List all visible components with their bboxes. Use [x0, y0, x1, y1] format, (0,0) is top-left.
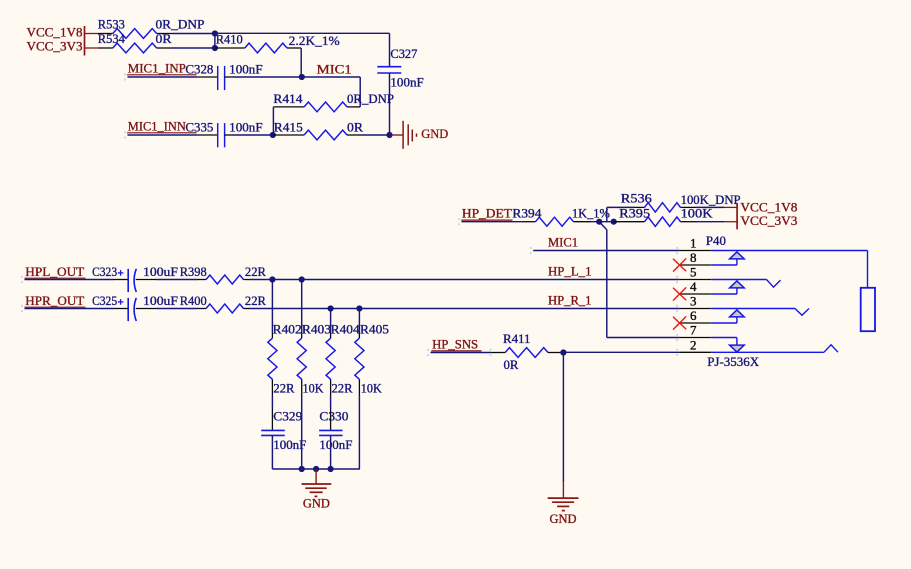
svg-text:R402: R402 — [273, 322, 302, 337]
pin 6 — [680, 322, 712, 324]
wire HPL to pin5 — [249, 279, 680, 281]
junction HP_SNS — [560, 349, 566, 355]
wire R414 left down — [272, 107, 274, 135]
svg-text:R534: R534 — [98, 31, 125, 46]
svg-text:22R: 22R — [332, 380, 353, 395]
svg-text:100nF: 100nF — [319, 437, 352, 452]
junction bus b — [313, 466, 319, 472]
svg-text:R403: R403 — [302, 322, 331, 337]
ground GND left — [315, 469, 317, 484]
svg-text:C328: C328 — [185, 61, 213, 76]
jack tip line pin1 — [711, 250, 867, 252]
jack contact pin6 — [711, 322, 737, 324]
wire C330 to bus — [330, 435, 332, 469]
svg-text:HPR_OUT: HPR_OUT — [25, 293, 84, 308]
svg-text:0R: 0R — [156, 31, 172, 46]
jack switch pin5 — [711, 279, 766, 281]
svg-text:100nF: 100nF — [229, 61, 262, 76]
capacitor C327 — [377, 66, 401, 68]
pin 2 — [680, 351, 712, 353]
wire R402 to C329 — [271, 396, 273, 409]
resistor R394 — [524, 221, 536, 223]
wire C335 to R415 — [225, 134, 233, 136]
jack contact pin8 — [711, 264, 737, 266]
wire C323 to R398 — [136, 279, 157, 281]
svg-text:HPL_OUT: HPL_OUT — [25, 264, 84, 279]
ground GND top — [392, 134, 404, 136]
wire gnd bus — [272, 468, 360, 470]
resistor R405 — [358, 309, 360, 333]
jack plug body rectangle — [861, 288, 875, 331]
wire HP_DET to pin7 — [599, 222, 607, 230]
svg-text:C330: C330 — [319, 409, 348, 424]
junction bus c — [328, 466, 334, 472]
wire R533 out — [173, 33, 215, 35]
no-connect pin 6 — [673, 317, 686, 330]
wire R405 to bus — [358, 396, 360, 470]
wire tie rows — [214, 34, 216, 49]
capacitor C329 — [261, 429, 285, 431]
jack contact pin4 — [711, 293, 737, 295]
wire HPL_OUT to C323 — [25, 279, 114, 281]
ground GND middle — [562, 482, 564, 498]
svg-text:3: 3 — [690, 294, 697, 309]
wire MIC1_INP to C328 — [128, 76, 198, 78]
wire up to R536 row — [606, 207, 608, 221]
svg-text:22R: 22R — [273, 380, 294, 395]
capacitor C328 — [217, 66, 219, 90]
svg-text:C327: C327 — [390, 46, 417, 61]
svg-text:C335: C335 — [185, 119, 213, 134]
svg-text:R410: R410 — [216, 32, 243, 47]
open wire end markers — [124, 73, 126, 75]
svg-text:0R: 0R — [347, 119, 363, 134]
svg-text:0R_DNP: 0R_DNP — [156, 17, 205, 32]
svg-text:100K: 100K — [681, 206, 714, 221]
svg-text:5: 5 — [690, 265, 697, 280]
wire R404 to C330 — [330, 396, 332, 409]
wire HPR to pin3 — [249, 308, 680, 310]
capacitor C323 polarized — [127, 269, 129, 292]
resistor R404 — [330, 309, 332, 333]
no-connect pin 8 — [673, 259, 686, 272]
junction R405 top — [356, 305, 362, 311]
junction R402 top — [269, 276, 275, 282]
svg-text:VCC_3V3: VCC_3V3 — [27, 39, 83, 54]
resistor R536 — [635, 206, 645, 208]
resistor R414 — [347, 106, 360, 108]
svg-text:1: 1 — [690, 236, 697, 251]
resistor R411 — [490, 352, 505, 354]
wire R410 to MIC1 node — [300, 48, 302, 77]
wire MIC1 node to R414 — [302, 76, 360, 78]
wire R411 to pin2 — [563, 351, 679, 353]
svg-text:R400: R400 — [180, 293, 207, 308]
svg-text:100uF: 100uF — [143, 264, 178, 279]
wire MIC1_INN to C335 — [128, 134, 198, 136]
svg-text:100nF: 100nF — [229, 119, 262, 134]
svg-text:2: 2 — [690, 337, 697, 352]
svg-text:R415: R415 — [274, 119, 303, 134]
jack switch pin3 — [711, 308, 795, 310]
jack contact pin7 sleeve — [711, 337, 737, 339]
svg-text:R394: R394 — [512, 206, 542, 221]
resistor R534 — [98, 47, 113, 49]
resistor R395 — [614, 221, 645, 223]
svg-text:R405: R405 — [360, 322, 389, 337]
svg-text:PJ-3536X: PJ-3536X — [707, 354, 760, 369]
pin connection markers — [676, 247, 678, 249]
junction R404 top — [328, 305, 334, 311]
svg-text:P40: P40 — [706, 233, 726, 248]
svg-text:100K_DNP: 100K_DNP — [681, 192, 741, 207]
junction R403 top — [299, 276, 305, 282]
junction bus a — [299, 466, 305, 472]
svg-text:100nF: 100nF — [390, 75, 423, 90]
svg-text:GND: GND — [421, 126, 448, 141]
wire HPR_OUT to C325 — [25, 308, 114, 310]
junction HP_DET b — [611, 219, 617, 225]
svg-text:R533: R533 — [98, 17, 125, 32]
port bar right — [736, 203, 738, 229]
svg-text:HP_DET: HP_DET — [462, 206, 512, 221]
resistor R533 — [98, 33, 113, 35]
svg-text:C325: C325 — [92, 293, 117, 308]
svg-text:HP_SNS: HP_SNS — [432, 337, 478, 352]
svg-text:C329: C329 — [273, 409, 302, 424]
wire R415 to gnd node — [361, 134, 390, 136]
svg-text:22R: 22R — [245, 264, 266, 279]
resistor R415 — [273, 134, 304, 136]
svg-text:R414: R414 — [273, 91, 303, 106]
wire C329 to bus — [271, 435, 273, 469]
svg-text:10K: 10K — [303, 380, 325, 395]
pin 8 — [680, 264, 712, 266]
wire C328 to MIC1 node — [225, 76, 233, 78]
wire VCC_3V3 to R534 — [85, 47, 99, 49]
pin 3 — [680, 308, 712, 310]
svg-text:22R: 22R — [245, 293, 266, 308]
junction — [212, 30, 218, 36]
svg-text:MIC1_INP: MIC1_INP — [128, 60, 186, 75]
wire C325 to R400 — [136, 308, 157, 310]
resistor R402 — [271, 280, 273, 333]
svg-text:C323: C323 — [92, 264, 117, 279]
jack switch pin2 — [711, 351, 824, 353]
svg-text:1K_1%: 1K_1% — [572, 206, 610, 221]
svg-text:GND: GND — [303, 495, 330, 510]
svg-text:10K: 10K — [361, 380, 383, 395]
pin 1 — [680, 250, 712, 252]
svg-text:4: 4 — [690, 279, 697, 294]
svg-text:R398: R398 — [180, 264, 207, 279]
wire R394 to junctions — [591, 221, 614, 223]
wire R403 to bus — [301, 396, 303, 470]
svg-text:R411: R411 — [503, 331, 531, 346]
svg-text:8: 8 — [690, 250, 697, 265]
junction gnd node — [386, 132, 392, 138]
svg-text:7: 7 — [690, 323, 697, 338]
wire HP_DET to R394 — [462, 221, 524, 223]
junction — [212, 45, 218, 51]
svg-text:R395: R395 — [619, 206, 650, 221]
svg-text:2.2K_1%: 2.2K_1% — [289, 33, 340, 48]
junction MIC1 node — [299, 74, 305, 80]
resistor R403 — [301, 280, 303, 333]
port bar — [84, 26, 86, 56]
svg-text:MIC1: MIC1 — [317, 61, 352, 76]
svg-text:R536: R536 — [621, 190, 653, 205]
resistor R398 — [198, 279, 207, 281]
svg-text:VCC_1V8: VCC_1V8 — [27, 24, 83, 39]
pin 7 — [680, 337, 712, 339]
svg-text:0R: 0R — [504, 357, 519, 372]
svg-text:HP_R_1: HP_R_1 — [548, 292, 592, 307]
wire R534 out — [173, 47, 215, 49]
svg-text:6: 6 — [690, 308, 697, 323]
capacitor C335 — [217, 123, 219, 147]
wire VCC_1V8 to R533 — [85, 33, 99, 35]
svg-text:VCC_3V3: VCC_3V3 — [740, 213, 797, 228]
junction R415 left — [270, 132, 276, 138]
wire HP_SNS to R411 — [431, 352, 491, 354]
svg-text:GND: GND — [550, 511, 577, 526]
no-connect pin 4 — [673, 288, 686, 301]
svg-text:0R_DNP: 0R_DNP — [347, 91, 394, 106]
svg-text:HP_L_1: HP_L_1 — [548, 263, 592, 278]
pin 5 — [680, 279, 712, 281]
svg-text:MIC1_INN: MIC1_INN — [128, 118, 187, 133]
resistor R400 — [198, 308, 207, 310]
wire top to C327 — [215, 32, 390, 34]
svg-text:R404: R404 — [331, 322, 361, 337]
junction HP_DET a — [596, 219, 602, 225]
wire R393 to port — [696, 221, 724, 223]
wire R536 to port — [696, 206, 724, 208]
svg-text:MIC1: MIC1 — [548, 234, 578, 249]
svg-text:100uF: 100uF — [143, 293, 178, 308]
wire to gnd — [562, 353, 564, 483]
capacitor C330 — [319, 429, 343, 431]
capacitor C325 polarized — [127, 298, 129, 321]
resistor R410 — [215, 47, 245, 49]
pin 4 — [680, 293, 712, 295]
